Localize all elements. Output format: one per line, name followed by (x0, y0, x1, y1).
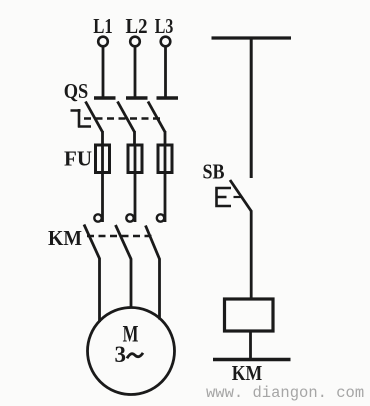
wire L1 to QS (102, 47, 105, 97)
coil KM (225, 299, 274, 331)
fuse FU pole 2 (128, 145, 142, 173)
fuse FU pole 3 (158, 145, 172, 173)
svg-text:L3: L3 (155, 14, 174, 38)
terminal L2 (130, 37, 140, 47)
svg-text:L1: L1 (93, 14, 113, 38)
contactor KM pole 2 blade (116, 225, 132, 259)
contactor KM pole 2 fixed contact (126, 214, 133, 221)
switch QS pole 1 fixed contact (94, 96, 116, 100)
switch QS pole 1 blade (86, 102, 103, 133)
motor M circle (88, 308, 175, 395)
wire FU pole 3 (through fuse) (164, 146, 167, 222)
contactor KM pole 3 blade (146, 226, 160, 260)
contactor KM pole 1 fixed contact (94, 214, 101, 221)
control bus bottom bar (213, 358, 291, 362)
wire bus to SB (250, 38, 253, 178)
pushbutton SB actuator dashed link (234, 196, 241, 198)
svg-text:KM: KM (232, 361, 263, 385)
switch QS pole 2 blade (118, 102, 135, 133)
control bus top bar (212, 36, 292, 39)
pushbutton SB blade (230, 180, 252, 212)
contactor KM pole 3 fixed contact (157, 214, 164, 221)
wire KM to motor phase 2 (130, 259, 133, 309)
switch QS pole 3 blade (148, 102, 165, 133)
wire QS to FU pole 2 (133, 131, 136, 146)
QS linkage dashed line (84, 117, 162, 119)
svg-text:QS: QS (64, 79, 89, 103)
wire FU pole 1 (through fuse) (101, 146, 104, 222)
fuse FU pole 1 (96, 145, 110, 173)
wire FU pole 2 (through fuse) (134, 146, 137, 222)
wire QS to FU pole 1 (101, 131, 104, 146)
wire KM to motor phase 3 (158, 259, 161, 320)
svg-text:KM: KM (48, 226, 82, 250)
wire L2 to QS (134, 47, 137, 97)
KM linkage dashed line (87, 235, 152, 237)
wire KM coil to bottom bar (249, 331, 252, 359)
svg-text:3: 3 (115, 342, 127, 367)
wire L3 to QS (164, 47, 167, 97)
svg-text:SB: SB (203, 160, 225, 184)
wire KM to motor phase 1 (98, 258, 101, 322)
terminal L1 (98, 37, 108, 47)
contactor KM pole 1 blade (84, 225, 100, 259)
switch QS pole 3 fixed contact (157, 96, 179, 100)
switch QS pole 2 fixed contact (126, 96, 148, 100)
pushbutton SB actuator (217, 188, 232, 206)
svg-text:FU: FU (64, 147, 92, 171)
wire QS to FU pole 3 (164, 131, 167, 146)
wire SB to KM coil (250, 211, 253, 300)
switch QS handle (71, 109, 92, 128)
motor label ~ (three-phase tilde) (127, 353, 143, 358)
svg-text:L2: L2 (126, 14, 148, 38)
svg-text:www. diangon. com: www. diangon. com (206, 384, 364, 402)
terminal L3 (161, 37, 171, 47)
